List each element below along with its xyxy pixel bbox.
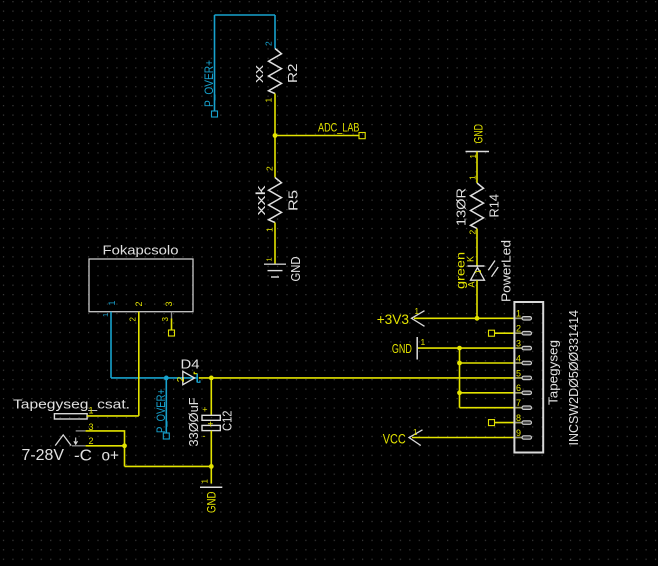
label ADC_LAB anchor square [359,133,365,139]
svg-text:2: 2 [176,376,187,382]
svg-text:P_OVER+: P_OVER+ [202,60,216,107]
svg-text:9: 9 [516,428,521,438]
wire bottom rail [125,465,212,467]
resistor R2 body [269,49,282,94]
junction pin 4 [457,361,462,366]
wire R2 pin1 to junction [274,94,276,136]
wire to connector pin 4 [460,362,523,364]
svg-text:1: 1 [89,406,94,416]
svg-text:2: 2 [134,301,144,306]
svg-text:VCC: VCC [383,432,406,447]
barrel jack center pin chevron [55,435,71,446]
wire to connector pin 8 [495,422,523,424]
LED PowerLed cathode bar [468,265,485,267]
power label +3V3 arrow [412,311,425,327]
power symbol GND (top right) bar [466,151,490,153]
svg-text:xxk: xxk [253,185,268,216]
power symbol GND (middle) bar [416,337,418,360]
wire to connector pin 6 [460,392,523,394]
wire main rail to connector pin 5 [199,377,522,379]
svg-text:1: 1 [421,337,426,347]
svg-text:1: 1 [468,175,478,180]
svg-text:2: 2 [129,317,138,322]
svg-text:1: 1 [101,313,110,317]
connector pin numbers 1-9 [516,309,521,438]
wire P_OVER+ top horizontal [215,14,276,16]
svg-text:6: 6 [516,383,521,393]
svg-text:Tapegyseg: Tapegyseg [546,340,561,405]
wire to ADC_LAB label [275,135,359,137]
svg-text:7-28V: 7-28V [22,447,65,464]
svg-text:C12: C12 [220,411,235,432]
svg-text:1: 1 [107,300,117,305]
svg-text:2: 2 [264,41,274,46]
diode D4 cathode top hook [194,372,197,374]
svg-text:1: 1 [265,227,275,232]
wire jack pin2 [86,445,125,447]
svg-text:R2: R2 [285,64,300,84]
svg-text:GND: GND [205,491,219,513]
jack pin2 stub [72,445,86,447]
wire junction to GND [210,466,212,483]
component Fokapcsolo box [89,259,193,312]
ground symbol under R5 [264,264,286,277]
label P_OVER+ (top) anchor square [212,111,218,117]
svg-text:4: 4 [516,353,521,363]
svg-text:R14: R14 [487,194,502,218]
connector Tapegyseg box [514,302,543,453]
wire VCC to connector pin 9 [412,437,522,439]
svg-text:GND: GND [392,342,412,356]
wire GND to R14 [476,152,478,184]
svg-text:1: 1 [201,479,210,484]
svg-text:PowerLed: PowerLed [499,240,514,302]
wire GND to connector pin 3 [418,347,522,349]
junction D4 cathode / C12 [209,376,214,381]
junction C12 / jack / GND [209,464,214,469]
resistor R14 body [471,183,484,229]
junction jack pins [122,443,127,448]
power symbol GND (bottom) bar [200,486,222,488]
svg-text:o+: o+ [102,448,120,465]
svg-text:xx: xx [251,64,266,83]
svg-text:-C: -C [74,448,92,465]
svg-text:+: + [202,404,207,414]
svg-text:1: 1 [474,269,483,274]
connector pads pins 1-9 [522,317,532,440]
svg-text:3: 3 [164,301,174,306]
svg-text:D4: D4 [181,357,200,372]
wire junction down to label [165,378,167,433]
connector pin stubs [515,318,522,437]
svg-text:GND: GND [472,124,486,144]
wire LED anode down to +3V3 rail [476,280,478,318]
svg-text:3: 3 [161,317,170,322]
svg-text:ADC_LAB: ADC_LAB [318,120,360,134]
wire +3V3 to connector pin 1 [414,317,522,319]
wire Fokapcsolo pin1 down [110,312,112,378]
junction GND net [457,346,462,351]
svg-text:1: 1 [264,98,274,103]
wire GND vertical bus [459,348,461,408]
svg-text:2: 2 [468,230,478,235]
junction pin 6 [457,390,462,395]
capacitor C12 bottom plate [202,425,220,430]
wire junction to R5 pin 2 [274,136,276,178]
junction +3V3 / LED [475,316,480,321]
wire C12 top [210,378,212,416]
wire C12 bottom [210,431,212,467]
wire jack pin3 [86,431,125,446]
wire to R2 pin 2 [274,15,276,49]
wire R5 pin1 to GND [274,223,276,264]
svg-text:A: A [467,281,477,287]
svg-text:5: 5 [516,368,521,378]
svg-text:1: 1 [413,428,418,437]
wire to D4 anode [111,377,197,379]
wire down to bottom rail [124,446,126,467]
svg-text:+3V3: +3V3 [377,311,410,327]
svg-text:7: 7 [516,398,521,408]
LED PowerLed triangle [471,268,485,281]
svg-text:13ØR: 13ØR [454,188,469,226]
diode D4 cathode bottom hook [197,380,200,382]
wire R14 to LED cathode [476,229,478,266]
svg-text:GND: GND [289,257,303,282]
svg-text:+: + [208,419,214,430]
wire pin3 to label square [171,319,173,331]
svg-text:33ØØuF: 33ØØuF [186,397,201,446]
svg-text:3: 3 [516,339,521,349]
svg-text:8: 8 [516,413,521,423]
svg-text:P_OVER+: P_OVER+ [156,389,168,433]
Fokapcsolo pin3 stub [171,312,173,319]
label P_OVER+ (bottom) anchor square [163,433,169,439]
wire to connector pin 2 [495,332,523,334]
wire P_OVER+ top vertical [214,15,216,111]
svg-text:1: 1 [265,257,274,261]
svg-text:Fokapcsolo: Fokapcsolo [103,243,179,258]
wire Fokapcsolo pin2 down to jack [138,312,140,416]
LED light arrows [488,261,498,277]
diode D4 cathode bar [196,374,198,383]
barrel jack contact tick [74,438,78,445]
barrel jack sleeve rectangle [54,414,87,419]
capacitor C12 top plate [202,415,220,420]
label square at Fokapcsolo pin3 [169,330,175,336]
wire jack pin1 to Fokapcsolo pin2 [87,415,139,417]
wire to connector pin 7 [460,407,523,409]
svg-text:INCSW2DØ5ØØ331414: INCSW2DØ5ØØ331414 [566,310,581,446]
jack pin3 stub [76,430,86,432]
junction P_OVER+ net [164,376,169,381]
svg-text:2: 2 [265,166,275,171]
svg-text:R5: R5 [286,190,301,211]
label square at connector pin 2 [489,330,495,336]
svg-text:2: 2 [516,324,521,334]
junction at ADC_LAB [273,133,278,138]
resistor R5 body [269,178,282,223]
svg-text:1: 1 [415,307,420,316]
power label VCC arrow [409,430,423,446]
svg-text:2: 2 [89,436,94,446]
label square at connector pin 8 [489,420,495,426]
svg-text:-: - [203,431,206,441]
diode D4 triangle [183,371,195,384]
svg-text:green: green [454,252,468,289]
svg-text:Tapegyseg_csat.: Tapegyseg_csat. [13,398,130,412]
svg-text:1: 1 [516,309,521,319]
